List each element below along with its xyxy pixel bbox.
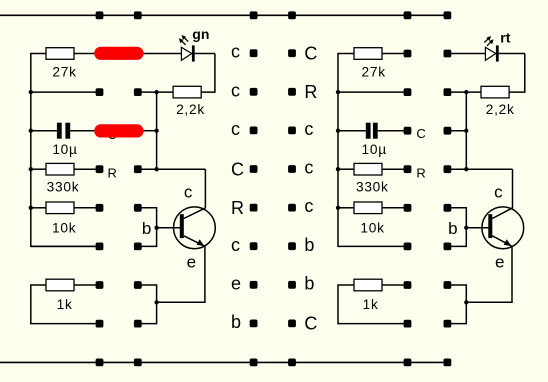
resistor 1k (right)	[338, 279, 408, 323]
resistor 10k (right)	[338, 202, 408, 214]
hole dot E5	[404, 204, 412, 212]
wire row2: hole B2 to 2,2k	[138, 91, 173, 93]
hole dot E4	[404, 165, 412, 173]
wire: right bracket vertical row2-row4	[464, 92, 468, 171]
hole dot A2	[96, 88, 104, 96]
hole dot B8	[134, 320, 142, 328]
svg-text:c: c	[231, 119, 240, 139]
wire row2: bus to hole A2	[31, 91, 100, 93]
wire row2: bus to hole E2 (right)	[338, 91, 408, 93]
hole dot F8	[444, 320, 452, 328]
svg-text:c: c	[304, 119, 313, 139]
transistor Q1 (left)	[174, 207, 216, 249]
wire: LED cathode down to 2,2k (right)	[509, 54, 525, 93]
wire: emitter down and to e-bracket (right)	[464, 246, 512, 304]
svg-text:b: b	[304, 235, 314, 255]
svg-text:c: c	[494, 183, 503, 202]
resistor 2,2k (right)	[481, 86, 509, 98]
wire: base bracket (right)	[447, 208, 488, 247]
wire row4: hole F4 to collector drop (right)	[447, 168, 512, 170]
svg-text:R: R	[108, 165, 117, 180]
hole dots column D	[288, 49, 296, 327]
svg-text:10k: 10k	[52, 220, 76, 235]
svg-text:R: R	[416, 165, 425, 180]
hole dot A4	[96, 165, 104, 173]
junction row2/bracket (left)	[154, 90, 158, 94]
resistor 10k (left)	[31, 202, 100, 214]
hole dot F2	[444, 88, 452, 96]
svg-text:c: c	[304, 196, 313, 216]
svg-text:2,2k: 2,2k	[176, 102, 205, 117]
transistor Q2 (right)	[482, 207, 524, 249]
svg-text:1k: 1k	[57, 297, 73, 312]
wire row4: hole B4 to collector drop	[138, 168, 206, 170]
jumper wire red (row 1)	[101, 47, 137, 60]
resistor 330k (left)	[31, 163, 100, 175]
svg-text:c: c	[231, 80, 240, 100]
LED D2 rt	[484, 36, 525, 62]
svg-text:1k: 1k	[363, 297, 379, 312]
hole dot A6	[96, 243, 104, 251]
capacitor 10u (right)	[338, 123, 408, 139]
svg-text:R: R	[304, 82, 317, 102]
resistor 27k (right)	[354, 48, 408, 60]
svg-text:C: C	[304, 314, 317, 334]
wire row3: hole F3 to bracket (right)	[447, 130, 466, 132]
resistor 2,2k (left)	[173, 86, 201, 98]
wire: emitter bracket (left)	[138, 285, 157, 324]
hole dot A8	[96, 320, 104, 328]
node labels column C (left letters)	[231, 42, 244, 332]
resistor 330k (right)	[338, 163, 408, 175]
jumper wire red (row 3)	[101, 124, 137, 137]
svg-text:e: e	[495, 253, 504, 272]
svg-text:gn: gn	[192, 26, 209, 42]
svg-text:C: C	[416, 126, 425, 141]
svg-text:27k: 27k	[52, 64, 76, 79]
svg-text:e: e	[187, 253, 196, 272]
svg-text:2,2k: 2,2k	[486, 102, 515, 117]
hole dot B5	[134, 204, 142, 212]
resistor 1k (left)	[31, 279, 100, 323]
hole dot A5	[96, 204, 104, 212]
wire: left bracket vertical row2-row4	[154, 92, 158, 171]
wire: base bracket (left)	[138, 208, 180, 247]
hole dot F7	[444, 281, 452, 289]
hole dots row1 cols A,B (under jumper)	[96, 50, 142, 58]
hole dot F6	[444, 243, 452, 251]
hole dot E3	[404, 127, 412, 135]
junction row2/bracket (right)	[464, 90, 468, 94]
hole dot A7	[96, 281, 104, 289]
hole dot B7	[134, 281, 142, 289]
svg-text:c: c	[231, 42, 240, 62]
hole dot F1	[444, 50, 452, 58]
wire: emitter bracket (right)	[447, 285, 466, 324]
svg-text:rt: rt	[500, 29, 510, 45]
wire: collector vertical (right)	[512, 169, 514, 208]
hole dot B6	[134, 243, 142, 251]
wire: jumper to bracket junction row3	[144, 130, 157, 132]
svg-text:10µ: 10µ	[52, 142, 77, 157]
svg-text:c: c	[184, 183, 193, 202]
hole dot B4	[134, 165, 142, 173]
svg-text:R: R	[231, 198, 244, 218]
svg-text:27k: 27k	[362, 64, 386, 79]
wire: right vertical bus	[336, 54, 408, 247]
hole dot E7	[404, 281, 412, 289]
hole dot E6	[404, 243, 412, 251]
bottom power rail	[0, 359, 451, 367]
wire row2: hole F2 to 2,2k (right)	[447, 91, 481, 93]
svg-text:10k: 10k	[360, 220, 384, 235]
wire: jumper to LED anode	[144, 53, 182, 55]
svg-text:b: b	[448, 219, 457, 238]
hole dot F5	[444, 204, 452, 212]
wire: left vertical bus	[29, 54, 100, 247]
hole dot E8	[404, 320, 412, 328]
hole dot F3	[444, 127, 452, 135]
top power rail	[0, 11, 451, 19]
hole dot F4	[444, 165, 452, 173]
hole dots column C	[250, 49, 258, 327]
wire: hole F1 to LED anode (right)	[447, 53, 485, 55]
svg-text:b: b	[304, 274, 314, 294]
hole dot E1	[404, 50, 412, 58]
svg-text:c: c	[231, 235, 240, 255]
svg-text:C: C	[231, 159, 244, 179]
hole dots row3 cols A,B (under jumper)	[96, 127, 142, 135]
svg-text:e: e	[231, 274, 241, 294]
svg-text:330k: 330k	[356, 179, 389, 194]
LED D1 gn	[179, 35, 215, 62]
svg-text:b: b	[142, 219, 151, 238]
resistor 27k (left)	[46, 48, 96, 60]
svg-text:b: b	[231, 312, 241, 332]
capacitor 10u (left)	[31, 123, 96, 139]
wire: emitter down and to e-bracket (left)	[154, 246, 204, 304]
svg-text:C: C	[304, 43, 317, 63]
node labels column D (right letters)	[304, 43, 317, 333]
wire: collector vertical (left)	[204, 169, 206, 208]
svg-text:10µ: 10µ	[362, 142, 387, 157]
svg-text:c: c	[304, 158, 313, 178]
wire row6: bus to hole A6	[31, 245, 100, 247]
hole dot B2	[134, 88, 142, 96]
hole dot E2	[404, 88, 412, 96]
wire: LED cathode down to 2,2k (left)	[201, 54, 215, 93]
svg-text:330k: 330k	[47, 179, 80, 194]
